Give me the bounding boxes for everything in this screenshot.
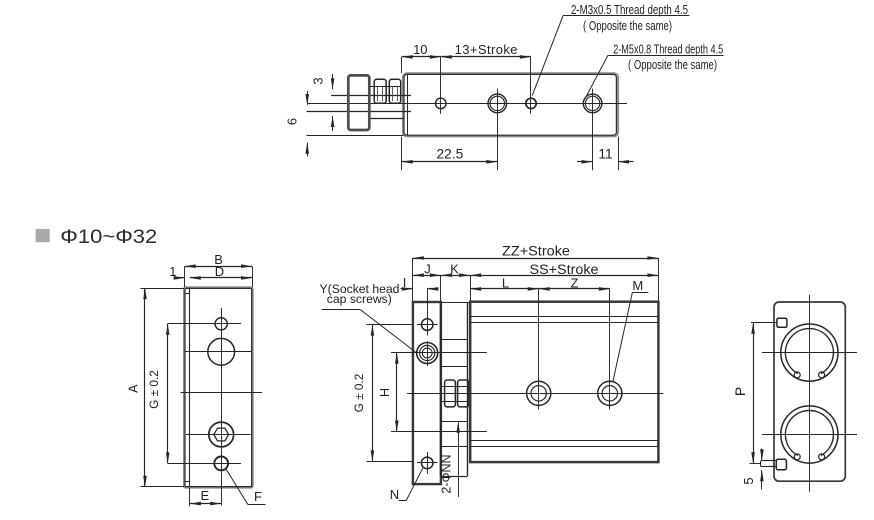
piston rod (top view): [307, 96, 412, 136]
svg-text:ZZ+Stroke: ZZ+Stroke: [502, 243, 570, 258]
dim L and Z: [470, 275, 610, 290]
svg-text:F: F: [254, 489, 262, 504]
front view plate body: [184, 287, 253, 487]
svg-text:N: N: [390, 487, 399, 502]
svg-text:3: 3: [311, 77, 326, 84]
front view hole centerlines: [168, 324, 262, 464]
svg-text:( Opposite the same): ( Opposite the same): [583, 19, 672, 33]
dim E: [190, 488, 222, 507]
svg-text:J: J: [424, 262, 431, 277]
leader M: [613, 278, 648, 381]
dim I: [401, 275, 439, 315]
rod lock nuts (top view): [369, 79, 401, 103]
rod lock nuts (side view): [441, 380, 470, 407]
port hole L (side view): [527, 289, 551, 410]
svg-text:10: 10: [413, 42, 427, 57]
side view plate top screw: [417, 314, 438, 336]
svg-text:E: E: [200, 488, 209, 503]
dim 11: [577, 137, 634, 170]
rod column (side view): [441, 302, 471, 477]
svg-text:6: 6: [285, 118, 300, 125]
svg-text:M: M: [632, 278, 643, 293]
hole 1 (top view): [436, 57, 447, 114]
dim 10: [402, 42, 441, 73]
svg-text:G ± 0.2: G ± 0.2: [147, 370, 161, 409]
side view centerline: [407, 393, 663, 395]
svg-text:SS+Stroke: SS+Stroke: [530, 262, 599, 277]
front view vertical centerline: [221, 308, 223, 506]
side view body bottom band: [470, 441, 658, 447]
side view body: [470, 302, 658, 462]
hole 3 (top view): [526, 57, 536, 114]
front view large hole: [208, 338, 235, 365]
end view body: [774, 302, 845, 481]
side view plate bottom screw N: [417, 452, 438, 474]
svg-text:13+Stroke: 13+Stroke: [455, 42, 518, 57]
dim 5: [741, 449, 764, 490]
dim 6: [285, 91, 310, 157]
svg-text:2-M3x0.5 Thread depth 4.5: 2-M3x0.5 Thread depth 4.5: [571, 3, 688, 17]
svg-text:K: K: [450, 262, 459, 277]
bore range label Φ10~Φ32: [36, 227, 158, 248]
top view cylinder body: [403, 73, 618, 136]
dim 1: [169, 264, 184, 280]
leader F: [226, 469, 266, 505]
svg-text:2-ΦNN: 2-ΦNN: [440, 454, 454, 493]
svg-text:11: 11: [598, 147, 612, 162]
callout 2-M3x0.5 thread: [532, 3, 689, 96]
svg-text:H: H: [378, 388, 392, 397]
dim D: [190, 264, 252, 280]
svg-text:Z: Z: [571, 275, 579, 290]
port hole Z/M (side view): [598, 289, 622, 410]
dim 13+Stroke: [441, 42, 531, 59]
hole 4 (top view): [583, 89, 602, 171]
svg-text:2-M5x0.8 Thread depth 4.5: 2-M5x0.8 Thread depth 4.5: [613, 42, 723, 56]
end view upper tab: [777, 318, 787, 327]
svg-text:P: P: [732, 387, 748, 396]
hole 2 (top view): [488, 89, 507, 171]
dim ZZ+Stroke: [413, 243, 659, 301]
dim G±0.2 (side view): [352, 325, 412, 462]
dim G±0.2 (front view): [147, 324, 170, 464]
top view centerline: [307, 103, 627, 105]
svg-text:Φ10~Φ32: Φ10~Φ32: [60, 227, 157, 248]
svg-text:22.5: 22.5: [436, 147, 463, 162]
svg-text:L: L: [502, 275, 509, 290]
svg-text:D: D: [215, 264, 224, 279]
front view plate edge strip: [185, 289, 190, 487]
svg-text:A: A: [127, 384, 141, 393]
svg-text:cap screws): cap screws): [327, 292, 392, 306]
dim A: [127, 288, 184, 487]
lower bore with snap ring: [781, 406, 838, 463]
front view bottom small hole: [214, 457, 228, 471]
end view lower bore centerline: [762, 434, 857, 436]
svg-text:( Opposite the same): ( Opposite the same): [628, 58, 717, 72]
side view rod plate: [413, 302, 441, 484]
end view lower tab with stem: [761, 459, 787, 469]
dim H: [378, 353, 487, 432]
dim B: [185, 252, 253, 287]
end view vertical centerline: [809, 295, 811, 492]
dim 3: [311, 74, 335, 131]
socket head cap screw Y: [414, 341, 442, 366]
dim 22.5: [402, 137, 498, 170]
label Y socket head cap screws: [320, 282, 416, 352]
callout 2-M5x0.8 thread: [586, 42, 723, 96]
svg-text:I: I: [403, 275, 407, 290]
svg-text:1: 1: [169, 264, 176, 279]
leader N: [390, 467, 423, 502]
upper bore with snap ring: [781, 324, 838, 381]
front view socket screw hole: [209, 422, 234, 447]
svg-text:5: 5: [741, 477, 756, 484]
front view top small hole: [215, 318, 227, 330]
end view upper bore centerline: [762, 352, 857, 354]
bumper knob: [348, 75, 369, 130]
dim J K SS+Stroke: [413, 262, 659, 301]
side view body top band: [470, 317, 658, 323]
dim P: [732, 323, 777, 464]
label 2-ΦNN rod holes: [440, 422, 461, 497]
svg-text:G ± 0.2: G ± 0.2: [352, 374, 366, 413]
